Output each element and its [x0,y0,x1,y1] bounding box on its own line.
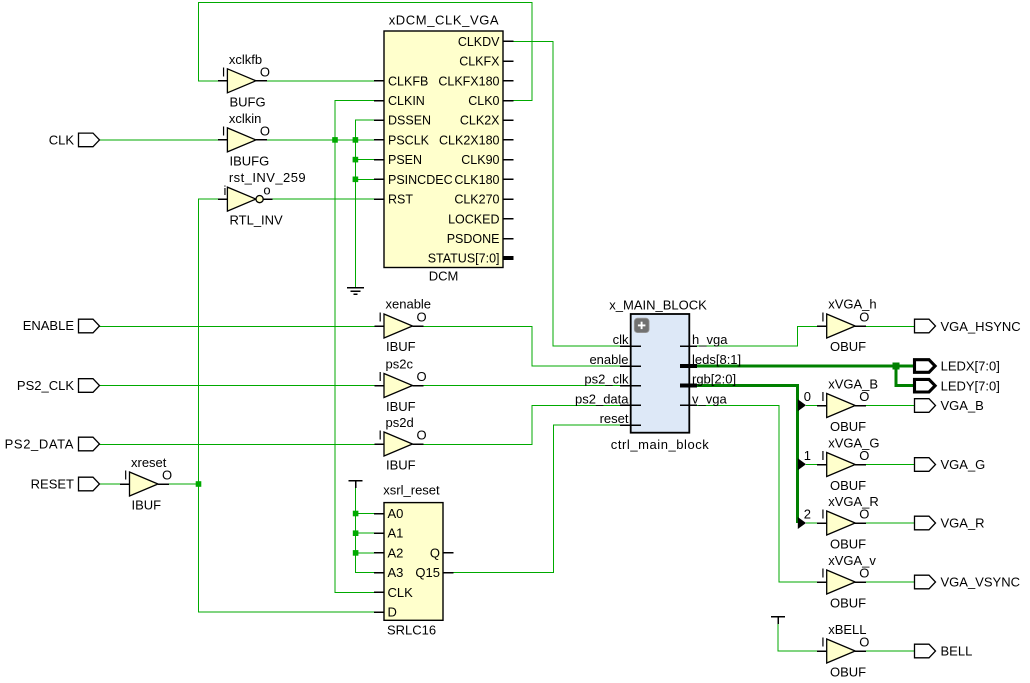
svg-text:xDCM_CLK_VGA: xDCM_CLK_VGA [389,13,500,28]
svg-text:IBUF: IBUF [386,339,416,354]
svg-text:PS2_CLK: PS2_CLK [17,378,74,393]
svg-text:RST: RST [388,193,413,207]
svg-text:SRLC16: SRLC16 [387,623,436,638]
svg-text:ps2_clk: ps2_clk [584,372,629,387]
svg-text:CLKFX: CLKFX [459,55,500,69]
svg-text:CLKFB: CLKFB [388,74,428,88]
svg-text:IBUF: IBUF [386,399,416,414]
svg-text:xVGA_G: xVGA_G [828,436,879,451]
svg-text:RTL_INV: RTL_INV [230,213,284,228]
svg-text:0: 0 [804,389,811,404]
svg-text:VGA_B: VGA_B [941,398,984,413]
svg-text:ps2_data: ps2_data [575,391,629,406]
svg-text:RESET: RESET [31,477,74,492]
svg-text:leds[8:1]: leds[8:1] [692,352,741,367]
svg-text:PS2_DATA: PS2_DATA [5,437,74,452]
svg-text:OBUF: OBUF [830,419,866,434]
svg-text:ENABLE: ENABLE [23,318,75,333]
svg-text:2: 2 [804,507,811,522]
svg-text:IBUFG: IBUFG [230,153,270,168]
svg-text:ps2c: ps2c [386,357,414,372]
svg-text:OBUF: OBUF [830,665,866,680]
svg-text:OBUF: OBUF [830,596,866,611]
svg-text:xVGA_R: xVGA_R [828,494,879,509]
svg-text:clk: clk [613,332,629,347]
svg-text:xclkfb: xclkfb [229,52,262,67]
svg-text:xclkin: xclkin [229,111,262,126]
svg-text:CLK: CLK [49,132,75,147]
svg-text:CLKIN: CLKIN [388,94,425,108]
svg-text:Q: Q [430,545,440,560]
svg-text:A2: A2 [388,545,404,560]
svg-text:CLKDV: CLKDV [458,35,500,49]
svg-text:VGA_G: VGA_G [941,457,986,472]
svg-text:v_vga: v_vga [692,391,727,406]
svg-text:IBUF: IBUF [132,498,162,513]
svg-text:xsrl_reset: xsrl_reset [383,483,440,498]
svg-text:xVGA_v: xVGA_v [828,553,876,568]
svg-text:BUFG: BUFG [230,94,266,109]
svg-text:CLK0: CLK0 [468,94,499,108]
svg-text:CLK: CLK [388,585,414,600]
svg-text:CLK2X: CLK2X [460,114,500,128]
svg-text:STATUS[7:0]: STATUS[7:0] [428,252,500,266]
svg-text:A1: A1 [388,526,404,541]
svg-text:Q15: Q15 [415,565,440,580]
svg-text:rgb[2:0]: rgb[2:0] [692,372,736,387]
svg-text:OBUF: OBUF [830,478,866,493]
svg-text:VGA_R: VGA_R [941,516,985,531]
svg-text:BELL: BELL [941,644,973,659]
svg-text:OBUF: OBUF [830,339,866,354]
svg-text:CLK2X180: CLK2X180 [439,133,500,147]
svg-text:CLK90: CLK90 [461,153,499,167]
svg-text:PSEN: PSEN [388,153,422,167]
svg-text:CLK270: CLK270 [454,193,499,207]
svg-text:D: D [388,605,397,620]
svg-text:VGA_HSYNC: VGA_HSYNC [941,319,1021,334]
svg-text:x_MAIN_BLOCK: x_MAIN_BLOCK [609,298,707,313]
svg-text:DSSEN: DSSEN [388,114,431,128]
svg-text:VGA_VSYNC: VGA_VSYNC [941,575,1020,590]
svg-text:DCM: DCM [429,269,459,284]
svg-text:h_vga: h_vga [692,332,728,347]
svg-text:PSCLK: PSCLK [388,133,430,147]
svg-text:ps2d: ps2d [386,415,414,430]
svg-text:1: 1 [804,448,811,463]
svg-text:xVGA_h: xVGA_h [828,297,876,312]
svg-text:CLK180: CLK180 [454,173,499,187]
svg-text:rst_INV_259: rst_INV_259 [229,170,306,185]
svg-text:LEDY[7:0]: LEDY[7:0] [941,378,1000,393]
svg-text:enable: enable [589,352,628,367]
svg-text:xenable: xenable [386,297,432,312]
svg-text:xreset: xreset [131,455,167,470]
svg-text:PSINCDEC: PSINCDEC [388,173,453,187]
svg-text:A3: A3 [388,565,404,580]
svg-text:LEDX[7:0]: LEDX[7:0] [941,358,1000,373]
svg-text:ctrl_main_block: ctrl_main_block [611,437,710,452]
svg-text:xBELL: xBELL [828,622,866,637]
svg-text:xVGA_B: xVGA_B [828,377,878,392]
svg-text:A0: A0 [388,506,404,521]
svg-text:OBUF: OBUF [830,537,866,552]
svg-text:reset: reset [600,411,629,426]
svg-text:PSDONE: PSDONE [447,232,500,246]
svg-text:LOCKED: LOCKED [448,212,499,226]
svg-text:IBUF: IBUF [386,458,416,473]
svg-text:CLKFX180: CLKFX180 [438,74,499,88]
